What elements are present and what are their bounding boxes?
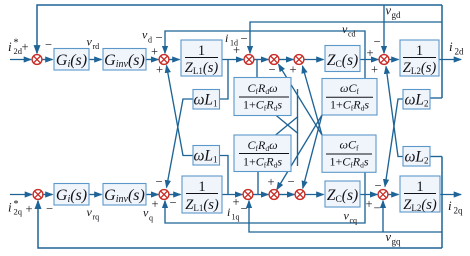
svg-text:+: +: [366, 197, 373, 211]
svg-text:i: i: [449, 39, 453, 54]
svg-text:i: i: [8, 200, 12, 215]
svg-text:−: −: [374, 201, 381, 215]
svg-text:cq: cq: [350, 216, 358, 225]
svg-text:cd: cd: [348, 30, 356, 39]
svg-text:+: +: [26, 202, 33, 216]
svg-text:CfRdω: CfRdω: [247, 81, 277, 96]
svg-text:−: −: [374, 35, 381, 49]
svg-text:i: i: [227, 205, 230, 219]
svg-text:−: −: [156, 31, 163, 45]
svg-text:rd: rd: [93, 42, 100, 51]
svg-text:d: d: [148, 36, 152, 45]
svg-text:−: −: [170, 196, 177, 210]
svg-text:+: +: [22, 40, 29, 54]
svg-text:+: +: [371, 63, 378, 77]
svg-text:gd: gd: [392, 10, 402, 20]
svg-text:1: 1: [198, 43, 205, 59]
svg-text:Gi(s): Gi(s): [56, 52, 87, 70]
svg-text:+: +: [152, 197, 159, 211]
svg-text:−: −: [46, 202, 53, 216]
svg-text:2q: 2q: [14, 207, 23, 217]
svg-text:+: +: [290, 63, 297, 77]
svg-text:1: 1: [416, 179, 423, 195]
svg-text:−: −: [156, 175, 163, 189]
svg-text:Gi(s): Gi(s): [56, 187, 87, 205]
svg-text:i: i: [8, 39, 12, 54]
svg-text:ZC(s): ZC(s): [327, 52, 358, 70]
svg-text:q: q: [149, 214, 153, 223]
svg-text:−: −: [241, 202, 248, 216]
svg-text:−: −: [269, 63, 276, 77]
svg-text:1+CfRds: 1+CfRds: [330, 98, 369, 113]
svg-text:−: −: [241, 32, 248, 46]
svg-text:ZC(s): ZC(s): [327, 187, 358, 205]
svg-text:+: +: [151, 45, 158, 59]
svg-text:2q: 2q: [454, 206, 464, 216]
svg-text:i: i: [448, 198, 452, 213]
svg-text:2d: 2d: [455, 47, 465, 57]
svg-text:gq: gq: [392, 237, 402, 247]
svg-text:CfRdω: CfRdω: [247, 138, 277, 153]
svg-text:+: +: [233, 195, 240, 209]
svg-text:i: i: [225, 31, 228, 45]
svg-text:+: +: [268, 175, 275, 189]
svg-text:rq: rq: [93, 213, 100, 222]
svg-text:−: −: [288, 175, 295, 189]
svg-text:1+CfRds: 1+CfRds: [243, 155, 282, 170]
svg-text:1q: 1q: [232, 213, 240, 222]
svg-text:+: +: [156, 63, 163, 77]
svg-text:1: 1: [198, 179, 205, 195]
svg-text:−: −: [45, 38, 52, 52]
svg-text:+: +: [367, 46, 374, 60]
svg-text:+: +: [233, 43, 240, 57]
svg-text:1+CfRds: 1+CfRds: [243, 98, 282, 113]
svg-text:1: 1: [416, 43, 423, 59]
svg-text:1+CfRds: 1+CfRds: [329, 155, 368, 170]
svg-text:−: −: [375, 178, 382, 192]
